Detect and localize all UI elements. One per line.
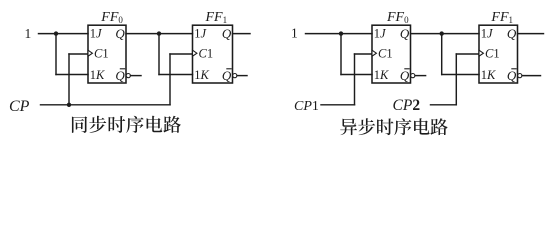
svg-text:Q: Q	[222, 26, 232, 41]
CP2 wire horizontal	[431, 104, 457, 106]
caption: synchronous sequential circuit	[72, 116, 181, 133]
output wire Q of right FF1	[518, 33, 544, 35]
svg-text:CP: CP	[9, 98, 30, 115]
wire into C1 of right FF1	[456, 53, 479, 55]
flip-flop right FF1 box	[479, 25, 518, 83]
clock input triangle of left FF0	[88, 50, 92, 56]
flip-flop left FF1 box	[193, 25, 233, 83]
wire Q0 down to 1K level (right)	[441, 34, 443, 75]
wire into 1K of left FF0	[56, 74, 88, 76]
svg-text:Q: Q	[400, 68, 410, 83]
wire CP up to C1 of left FF1	[169, 54, 171, 105]
svg-text:1K: 1K	[481, 68, 496, 82]
wire junction down to 1K level (right FF0)	[340, 34, 342, 75]
output wire Q of left FF1	[233, 33, 251, 35]
stub wire on Q-bar of right FF1	[522, 75, 540, 77]
clock input triangle of left FF1	[193, 50, 197, 56]
wire Q of left FF0 to 1J of left FF1	[126, 33, 193, 35]
stub wire on Q-bar of left FF0	[131, 75, 141, 77]
wire into C1 of left FF0	[69, 53, 88, 55]
inversion bubble on Q-bar output of right FF0	[411, 74, 415, 78]
svg-text:FF1: FF1	[490, 10, 513, 25]
svg-text:CP1: CP1	[294, 99, 319, 114]
svg-text:C1: C1	[485, 46, 500, 60]
clock input triangle of right FF0	[372, 50, 376, 56]
svg-text:Q: Q	[400, 26, 410, 41]
svg-text:Q: Q	[222, 68, 232, 83]
wire into C1 of right FF0	[355, 53, 373, 55]
wire into 1K of right FF1	[442, 74, 479, 76]
flip-flop left FF0 box	[88, 25, 126, 83]
CP1 wire up to C1 of right FF0	[354, 54, 356, 105]
svg-text:1K: 1K	[194, 68, 209, 82]
inversion bubble on Q-bar output of right FF1	[518, 74, 522, 78]
svg-text:FF0: FF0	[100, 10, 123, 25]
wire from node 1 to 1J of right FF0	[306, 33, 373, 35]
wire into 1K of left FF1	[159, 74, 193, 76]
svg-text:1J: 1J	[90, 26, 103, 40]
svg-text:1K: 1K	[374, 68, 389, 82]
CP1 wire horizontal	[321, 104, 355, 106]
wire into C1 of left FF1	[170, 53, 193, 55]
CP horizontal wire	[41, 104, 171, 106]
wire from node 1 to 1J of left FF0	[39, 33, 89, 35]
svg-text:1J: 1J	[374, 26, 387, 40]
svg-text:1: 1	[25, 26, 32, 41]
junction on Q0 wire (left)	[157, 31, 161, 35]
wire Q of right FF0 to 1J of right FF1	[411, 33, 480, 35]
svg-text:C1: C1	[199, 46, 214, 60]
stub wire on Q-bar of left FF1	[237, 75, 247, 77]
junction on CP wire	[67, 103, 71, 107]
inversion bubble on Q-bar output of left FF0	[126, 74, 130, 78]
caption: asynchronous sequential circuit	[340, 118, 448, 135]
wire CP up to C1 of left FF0	[68, 54, 70, 105]
output label Q-bar of right FF1	[507, 68, 517, 83]
junction on wire 1 (left)	[54, 31, 58, 35]
junction on Q0 wire (right)	[440, 31, 444, 35]
svg-text:C1: C1	[378, 46, 393, 60]
svg-text:C1: C1	[94, 46, 109, 60]
svg-text:1J: 1J	[481, 26, 494, 40]
svg-text:Q: Q	[115, 26, 125, 41]
wire into 1K of right FF0	[341, 74, 372, 76]
svg-text:1J: 1J	[194, 26, 207, 40]
junction on wire 1 (right)	[339, 31, 343, 35]
svg-text:Q: Q	[115, 68, 125, 83]
CP2 wire up to C1 of right FF1	[455, 54, 457, 105]
svg-text:1: 1	[291, 26, 298, 41]
inversion bubble on Q-bar output of left FF1	[233, 74, 237, 78]
wire junction down to 1K level (left FF0)	[55, 34, 57, 75]
stub wire on Q-bar of right FF0	[415, 75, 426, 77]
svg-text:Q: Q	[507, 26, 517, 41]
svg-text:1K: 1K	[90, 68, 105, 82]
output label Q-bar of left FF0	[115, 68, 125, 83]
wire Q0 down to 1K level (left)	[158, 34, 160, 75]
clock input triangle of right FF1	[479, 50, 483, 56]
svg-text:FF0: FF0	[386, 10, 409, 25]
flip-flop right FF0 box	[372, 25, 411, 83]
output label Q-bar of right FF0	[400, 68, 410, 83]
output label Q-bar of left FF1	[222, 68, 232, 83]
svg-text:FF1: FF1	[205, 10, 228, 25]
svg-text:Q: Q	[507, 68, 517, 83]
svg-text:CP2: CP2	[393, 97, 421, 114]
